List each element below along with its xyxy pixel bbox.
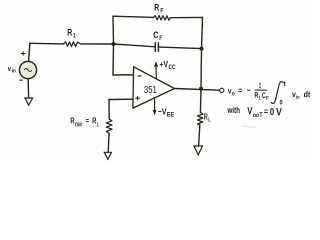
VEE supply arrow xyxy=(154,98,156,110)
integral sign xyxy=(271,81,283,103)
wire CF branch left xyxy=(114,44,156,47)
junction node CF right xyxy=(200,47,204,51)
svg-text:C: C xyxy=(153,30,159,40)
svg-text:F: F xyxy=(160,7,163,14)
wire top feedback branch left segment xyxy=(113,16,154,17)
equation with VooT xyxy=(227,105,282,120)
source sine symbol xyxy=(24,69,32,72)
svg-text:=: = xyxy=(238,85,242,95)
svg-text:V: V xyxy=(247,105,252,117)
svg-text:F: F xyxy=(159,35,162,42)
wire ROM vertical top xyxy=(108,100,110,120)
wire top feedback branch right segment xyxy=(170,16,202,18)
junction node at inverting input xyxy=(112,42,116,46)
equation vo xyxy=(227,79,310,107)
wire source bottom stem xyxy=(27,79,29,98)
wire source top stem xyxy=(29,43,30,61)
wire op-amp output xyxy=(174,89,219,91)
svg-text:T: T xyxy=(259,112,263,119)
svg-text:with: with xyxy=(227,105,240,115)
svg-text:OM: OM xyxy=(75,122,82,128)
svg-text:R: R xyxy=(92,117,96,126)
svg-text:=: = xyxy=(264,106,268,116)
svg-text:dt: dt xyxy=(304,89,311,99)
capacitor CF plate left xyxy=(154,43,156,51)
svg-text:v: v xyxy=(8,66,11,73)
wire right vertical (feedback to output) xyxy=(201,17,203,88)
source minus sign xyxy=(19,79,22,81)
svg-text:L: L xyxy=(208,118,211,124)
svg-text:1: 1 xyxy=(259,81,262,90)
svg-text:o: o xyxy=(232,91,235,97)
wire left vertical (inverting node) xyxy=(112,16,115,75)
wire input from source to R1 xyxy=(30,42,64,45)
wire ROM to ground xyxy=(107,134,110,153)
resistor RF xyxy=(154,16,171,21)
svg-text:R: R xyxy=(67,27,72,37)
source plus sign xyxy=(21,51,25,55)
ground below source xyxy=(25,98,33,105)
output terminal circle xyxy=(220,88,224,92)
svg-text:EE: EE xyxy=(167,113,174,119)
faint scan smudge xyxy=(242,126,256,127)
svg-text:−: − xyxy=(247,85,251,95)
svg-text:−V: −V xyxy=(158,106,167,116)
resistor RL zigzag xyxy=(197,112,203,125)
wire RL to ground xyxy=(199,125,200,146)
svg-text:in: in xyxy=(296,95,300,101)
svg-text:F: F xyxy=(266,96,269,102)
wire non-inverting input to op-amp xyxy=(109,98,133,100)
svg-text:t: t xyxy=(283,81,287,88)
source Vin circle xyxy=(19,61,36,78)
wire R1 to inverting junction xyxy=(81,43,114,45)
svg-text:+V: +V xyxy=(160,59,169,69)
svg-text:1: 1 xyxy=(97,122,99,128)
svg-text:0: 0 xyxy=(270,107,275,118)
resistor ROM zigzag xyxy=(106,119,112,134)
svg-text:in: in xyxy=(12,68,16,74)
VCC supply arrow xyxy=(155,66,157,80)
svg-text:R: R xyxy=(154,2,159,12)
svg-text:=: = xyxy=(86,116,90,125)
svg-text:351: 351 xyxy=(144,85,157,96)
ground below ROM xyxy=(104,152,111,159)
ground below RL xyxy=(194,146,203,155)
junction node output xyxy=(199,87,203,91)
op-amp minus sign xyxy=(138,75,142,77)
capacitor CF plate right xyxy=(157,43,159,51)
svg-text:V: V xyxy=(276,106,282,118)
svg-text:CC: CC xyxy=(168,65,176,71)
op-amp U1 triangle xyxy=(133,67,175,108)
wire CF branch right xyxy=(159,47,202,49)
wire inverting input to op-amp xyxy=(113,74,134,76)
wire RL vertical top xyxy=(199,89,202,113)
op-amp plus sign xyxy=(135,96,139,100)
resistor R1 xyxy=(64,42,81,47)
svg-text:1: 1 xyxy=(73,33,76,40)
svg-text:1: 1 xyxy=(259,96,261,102)
